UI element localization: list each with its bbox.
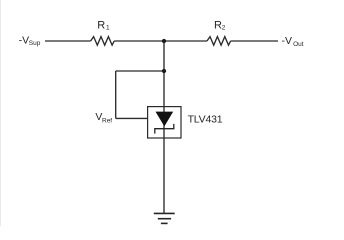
svg-text:2: 2 xyxy=(222,24,226,31)
svg-text:-V: -V xyxy=(282,35,293,47)
TLV431 cathode triangle xyxy=(156,112,174,127)
svg-text:R: R xyxy=(214,20,222,32)
wire: vertical from node to ground xyxy=(163,41,165,213)
resistor R2 xyxy=(207,37,231,46)
wire: feedback top horizontal xyxy=(116,70,164,72)
svg-text:TLV431: TLV431 xyxy=(188,114,223,126)
svg-text:-V: -V xyxy=(19,35,30,47)
shunt regulator U1 TLV431 body xyxy=(148,107,181,138)
svg-text:Ref: Ref xyxy=(102,118,112,125)
label R2 xyxy=(214,20,226,32)
node junction dot 2 xyxy=(162,69,166,73)
label -VSup xyxy=(19,35,41,48)
wire: feedback left vertical xyxy=(115,71,117,118)
svg-text:1: 1 xyxy=(106,24,110,31)
ground xyxy=(154,213,175,223)
node junction dot 1 xyxy=(162,39,166,43)
svg-text:Sup: Sup xyxy=(29,40,41,47)
svg-text:Out: Out xyxy=(293,41,304,48)
svg-text:R: R xyxy=(97,20,105,32)
label R1 xyxy=(97,20,110,32)
label -VOut xyxy=(282,35,304,48)
wire: R2 to -VOut xyxy=(231,40,278,42)
resistor R1 xyxy=(91,37,115,46)
TLV431 zener bar xyxy=(155,124,174,134)
label VRef xyxy=(95,111,112,124)
wire: R1 to R2 (through node) xyxy=(114,40,207,42)
wire: VRef pin into box xyxy=(116,117,148,119)
wire: -VSup to R1 xyxy=(45,40,91,42)
